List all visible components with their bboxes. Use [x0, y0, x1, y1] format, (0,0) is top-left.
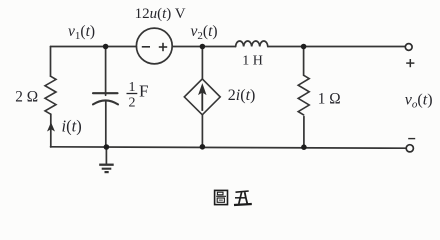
svg-text:v1(t): v1(t)	[68, 23, 95, 42]
caption char 圖	[215, 190, 228, 204]
terminal + output	[405, 44, 412, 51]
label capacitor value 1/2 F	[129, 80, 136, 110]
resistor 1Ω	[298, 75, 309, 115]
svg-text:F: F	[139, 81, 148, 100]
plus sign at output	[406, 59, 414, 67]
wire dependent source branch lower	[201, 115, 203, 147]
wire capacitor branch upper	[105, 47, 107, 96]
svg-text:2 Ω: 2 Ω	[15, 89, 38, 106]
svg-text:vo(t): vo(t)	[405, 91, 433, 110]
junction dot bottom 1Ω	[301, 144, 307, 150]
wire left branch lower	[50, 114, 52, 147]
caption 圖五 (drawn as vector strokes)	[215, 190, 252, 205]
node v2 junction dot	[200, 44, 206, 50]
wire 1Ω branch lower	[303, 117, 305, 148]
node v1 junction dot	[103, 44, 109, 50]
caption char 五	[234, 191, 252, 205]
junction dot bottom capacitor / ground node	[104, 144, 110, 150]
arrow i(t) on left branch	[47, 122, 55, 131]
svg-text:i(t): i(t)	[62, 117, 82, 136]
svg-text:12u(t) V: 12u(t) V	[135, 6, 186, 22]
capacitor 1/2 F	[93, 93, 118, 104]
svg-text:v2(t): v2(t)	[191, 23, 218, 42]
svg-text:1 Ω: 1 Ω	[318, 90, 341, 107]
wire 1Ω branch upper	[303, 47, 305, 76]
wire dependent source branch upper	[201, 47, 203, 80]
svg-text:2i(t): 2i(t)	[228, 87, 256, 104]
wire top rail left segment	[51, 46, 137, 48]
minus sign at output	[408, 138, 415, 140]
ground stem	[105, 147, 107, 164]
svg-text:2: 2	[129, 96, 136, 111]
voltage source U1 12u(t) circle	[136, 28, 172, 64]
minus sign inside source	[142, 46, 150, 48]
wire left branch upper	[50, 47, 52, 77]
arrow inside dependent source	[199, 85, 206, 111]
junction dot bottom dependent source	[200, 144, 206, 150]
terminal - output	[406, 145, 413, 152]
ground	[99, 165, 114, 172]
junction dot top of 1Ω	[301, 44, 307, 50]
dependent current source 2i(t)	[184, 79, 220, 115]
wire top rail right segment	[268, 46, 405, 48]
wire capacitor branch lower	[105, 101, 107, 147]
wire bottom rail	[51, 147, 407, 148]
inductor 1 H	[236, 41, 268, 47]
svg-text:1 H: 1 H	[242, 54, 263, 69]
plus sign inside source	[159, 43, 167, 51]
wire top rail middle segment	[172, 46, 235, 48]
resistor 2Ω	[45, 76, 56, 114]
